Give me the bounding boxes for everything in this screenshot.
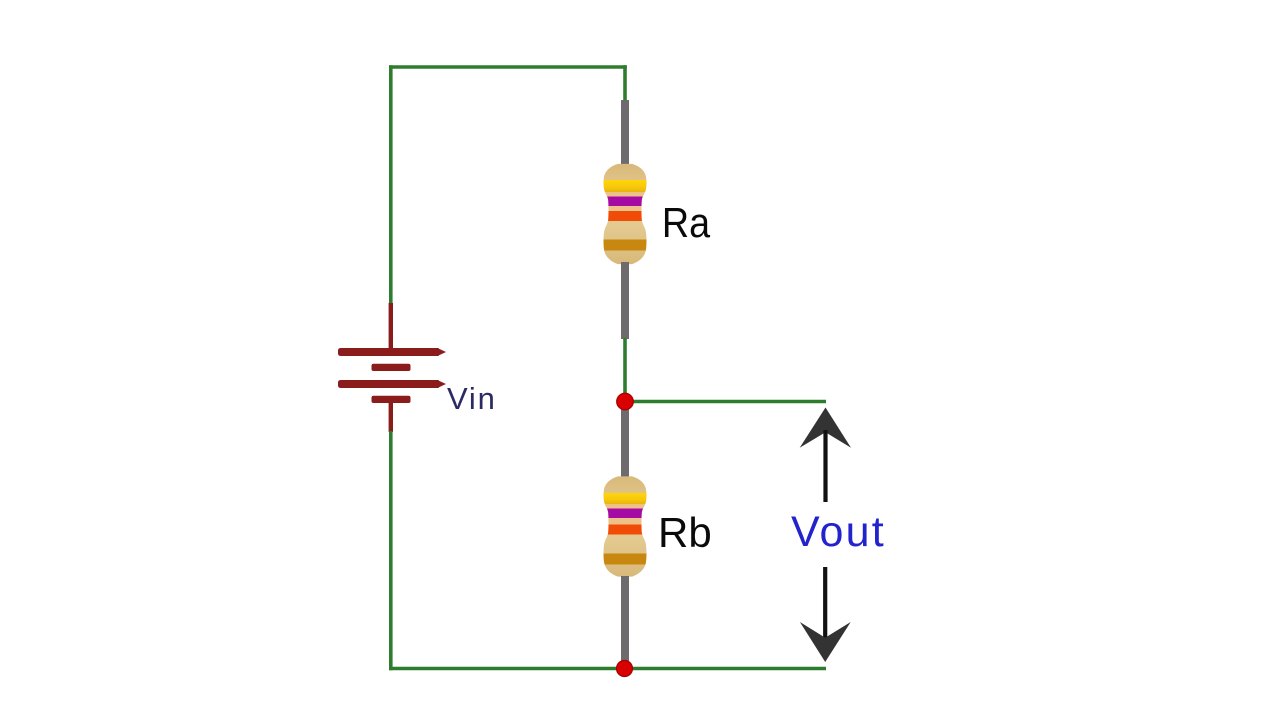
svg-text:Ra: Ra — [662, 200, 711, 246]
Vout arrow lower shaft — [823, 567, 827, 640]
wire middle vertical segment (green) — [623, 338, 627, 401]
resistor Ra body — [600, 164, 650, 264]
battery Vin plate 4 (short) — [372, 396, 411, 403]
svg-text:Rb: Rb — [658, 509, 712, 556]
wire resistor Ra top lead (gray) — [621, 100, 629, 165]
wire bottom horizontal (green) — [389, 667, 826, 671]
node junction dot lower (red) — [617, 661, 633, 677]
node junction dot upper (red) — [617, 393, 634, 410]
label Rb — [658, 509, 712, 556]
battery Vin plate 1 (long) — [338, 348, 446, 356]
resistor Rb body — [600, 476, 650, 576]
Vout arrow upper shaft — [823, 430, 827, 502]
wire resistor Rb top lead (gray) — [621, 402, 629, 478]
wire left vertical lower (green) — [389, 431, 393, 670]
svg-text:Vin: Vin — [447, 381, 497, 416]
label Vin — [447, 381, 497, 416]
battery Vin plate 3 (long) — [338, 380, 446, 388]
wire battery negative lead (dark red) — [389, 403, 393, 432]
wire top right vertical (green) — [623, 65, 627, 102]
wire resistor Ra bottom lead (gray) — [621, 262, 629, 339]
wire resistor Rb bottom lead (gray) — [621, 576, 629, 667]
wire left vertical upper (green) — [389, 65, 393, 304]
svg-text:Vout: Vout — [791, 508, 886, 556]
Vout arrow lower head — [800, 622, 851, 662]
battery Vin plate 2 (short) — [372, 364, 411, 371]
wire top horizontal (green) — [389, 65, 627, 69]
label Ra — [662, 200, 711, 246]
wire node output horizontal (green) — [625, 400, 826, 404]
label Vout — [791, 508, 886, 556]
wire battery positive lead (dark red) — [389, 303, 393, 349]
Vout arrow upper head — [800, 408, 851, 448]
